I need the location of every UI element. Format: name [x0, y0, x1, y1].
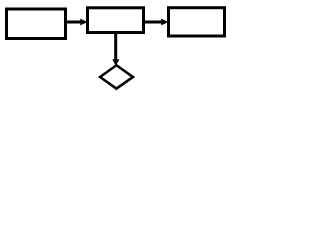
wire: box2 down to diamond	[114, 32, 117, 60]
process box 3 (right rectangle)	[169, 8, 225, 36]
wire: box1 to box2	[65, 21, 81, 24]
arrowhead into box 3	[161, 19, 168, 26]
decision diamond (outer)	[98, 64, 135, 91]
arrowhead into diamond	[112, 59, 119, 66]
process box 1 (left rectangle)	[7, 9, 66, 39]
arrowhead into box 2	[80, 19, 87, 26]
wire: box2 to box3	[143, 21, 162, 24]
process box 2 (middle rectangle)	[88, 8, 144, 33]
decision diamond (inner white)	[102, 67, 131, 87]
